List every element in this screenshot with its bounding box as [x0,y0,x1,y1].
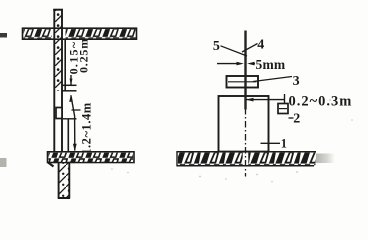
column (upper run, hatched through beam down to y=91) [53,9,63,152]
column lower run (below bottom beam) [58,163,70,199]
label 1 with leader [261,137,287,151]
dimension text 0.15~0.25m (rotated) [67,38,91,74]
extension line from clamp2 [62,118,77,120]
edge mark bottom left [0,158,7,167]
conductor segment B [67,119,69,152]
5mm dimension [217,57,286,72]
clamp (item 3) [227,76,259,88]
support box (item 1) [219,96,269,152]
bottom beam [48,152,135,167]
dimension text 1.2~1.4m (rotated) [80,102,94,155]
tick across dim line B [72,109,81,111]
clamp 2 on column face [56,108,62,119]
floor slab [177,151,336,166]
label 4 with leader [242,37,264,52]
label 3 with leader [253,74,300,89]
center line (dash-dot) [243,153,249,165]
faint scan speckles [111,99,353,182]
svg-text:3: 3 [293,74,300,89]
svg-text:5: 5 [213,39,220,54]
svg-text:0.25m: 0.25m [77,38,91,73]
dimension line B with arrows (1.2~1.4m) [69,95,77,152]
conductor / dimension line A (beam to first clamp) [64,40,66,91]
svg-text:2: 2 [293,112,300,127]
short drop under rotated text [70,75,72,85]
svg-text:4: 4 [257,37,264,52]
edge mark left of top beam [0,33,7,38]
svg-text:1: 1 [281,137,287,151]
clamp 1 (two ticks right of column) [62,84,77,86]
top beam [23,28,137,39]
item 2 (small clamp square) with label [278,104,300,127]
svg-text:5mm: 5mm [256,57,286,72]
svg-text:1.2~1.4m: 1.2~1.4m [80,102,94,155]
label 5 with leader [213,39,247,56]
svg-text:0.2~0.3m: 0.2~0.3m [289,93,353,109]
0.2~0.3m dimension [246,93,352,109]
rod (item 4/5) [244,31,246,110]
